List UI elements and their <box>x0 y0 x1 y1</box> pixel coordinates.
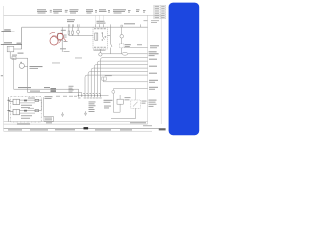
wire: left branch down <box>13 58 15 89</box>
fuse F5 <box>68 27 70 36</box>
wire: bus B to connector rail <box>14 87 79 96</box>
label: revision table cell text <box>144 6 165 23</box>
wire: lower right feed 1 <box>102 75 148 82</box>
label: R1 text <box>125 97 131 100</box>
label: text right of J1 <box>45 96 53 123</box>
component: driver symbol Q1 <box>35 99 39 101</box>
wire: feed to relay coil <box>69 35 93 37</box>
fuse F6 <box>72 27 74 36</box>
wire: staircase 4 <box>91 68 147 96</box>
annotation: red circle 2 <box>57 33 63 39</box>
label: pin numbers below rail <box>78 93 102 98</box>
wire: branch to right column <box>124 44 159 48</box>
component: connector box X50 <box>44 117 54 122</box>
wire: bottom link <box>111 118 136 120</box>
relay K1 coil <box>95 33 98 40</box>
wire: K2 outputs <box>20 100 42 113</box>
wire: battery to bus <box>24 66 27 68</box>
ground G100 <box>61 112 64 116</box>
label: relay designator text <box>97 21 106 24</box>
pins on connector rail <box>78 95 100 97</box>
label: title block texts <box>8 122 166 130</box>
label: header component designators row <box>37 9 146 13</box>
title block logo mark <box>84 127 89 129</box>
label: ground reference labels left of rail <box>56 95 77 98</box>
blue side panel <box>169 3 200 136</box>
wire: staircase 3 <box>94 65 147 96</box>
wire: F1 down <box>9 52 11 58</box>
revision table <box>154 5 166 19</box>
relay K1 dashed enclosure <box>93 27 108 49</box>
component: fuse box F1 <box>7 46 22 58</box>
wire: J1 left riser <box>8 97 10 122</box>
connector rail X10 <box>78 95 109 97</box>
component: connector terminal T2 <box>10 53 28 67</box>
wire: left drop from rail <box>21 27 23 49</box>
wire: bus C to connector rail <box>28 91 82 96</box>
wire: main supply rail 30 <box>22 26 148 28</box>
relay K1 contact <box>102 33 106 41</box>
wire: staircase 2 <box>97 61 147 96</box>
wire: relay right to switch branch <box>108 35 111 37</box>
wire: J1 internal risers <box>42 97 44 116</box>
fuse SB2 with value label <box>1 42 22 44</box>
pin: J1 terminals <box>8 100 10 111</box>
label: wire codes below relay <box>94 49 106 52</box>
label: margin coordinate <box>1 75 3 76</box>
wire: splice output line <box>102 53 148 55</box>
label: battery text <box>30 66 43 67</box>
fuse SB1 with value label <box>1 29 14 31</box>
label: right column destination labels <box>149 51 159 89</box>
annotation: red circle 1 <box>50 36 58 45</box>
wire: staircase 5 <box>88 72 148 96</box>
diode D2 <box>24 110 27 112</box>
battery A with plus terminal <box>19 62 42 69</box>
wire: battery positive bus down <box>27 67 29 93</box>
component: inline connector oval <box>122 52 128 55</box>
component: switch S1 (red circled) <box>58 27 68 52</box>
switch S3 dashed box <box>131 89 141 119</box>
connector pins into relay top <box>95 24 140 27</box>
label: connector id labels <box>104 100 113 109</box>
label: fuse values above relay <box>67 19 75 22</box>
label: pin list left stack <box>69 86 74 93</box>
wire: relay pins up to header <box>96 15 104 24</box>
wire: right lower branch verticals <box>113 95 120 112</box>
relay K3 inside J1 <box>9 109 20 114</box>
component: resistor R1 box <box>117 99 123 104</box>
control unit J1 dash-dot enclosure <box>11 97 42 122</box>
node: splice circle under relay <box>99 49 102 56</box>
component: driver symbol Q2 <box>35 110 39 112</box>
label: faint wire codes mid area <box>52 51 82 63</box>
label: wire color code stack <box>89 102 96 112</box>
wire: F1 to left drop <box>14 48 22 50</box>
label: relay pin numbers bottom <box>94 46 106 49</box>
wire: down to battery <box>27 58 29 66</box>
lamp E1 <box>77 27 80 36</box>
relay K2 inside J1 <box>9 99 20 104</box>
component: sensor G1 branch <box>120 23 136 54</box>
wire: lower right feed 2 <box>112 89 148 97</box>
label: relay pin numbers top <box>94 27 106 30</box>
ground G101 <box>84 111 87 115</box>
connector X1 dark terminals <box>51 88 57 91</box>
wire: T2 rail <box>10 57 28 59</box>
label: J1 caption below <box>17 123 30 124</box>
annotation: red stroke tail <box>50 32 56 36</box>
annotation: red tick right <box>59 38 66 43</box>
switch S2 <box>110 43 112 54</box>
wire: branch from rail at x110 <box>109 27 111 43</box>
diode D1 <box>24 100 27 102</box>
sheet frame <box>4 6 162 131</box>
label: S3 text <box>142 100 157 107</box>
wire: staircase 1 <box>101 58 148 96</box>
connector pins above rail <box>61 24 80 31</box>
wire: staircase 6 <box>85 75 148 96</box>
label: J1 internal text rows <box>21 98 35 119</box>
